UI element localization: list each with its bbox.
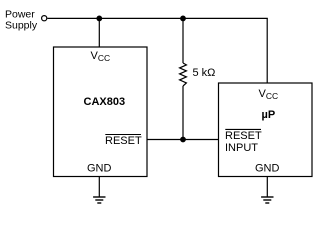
wire: uP ground stub	[266, 177, 268, 198]
wire: RESET net	[147, 139, 219, 141]
svg-text:VCC: VCC	[91, 50, 111, 63]
pin label RESET (CAX803) overline	[105, 134, 141, 136]
svg-text:RESET: RESET	[225, 130, 262, 142]
ground symbol (uP)	[261, 197, 273, 203]
wire: CAX803 ground stub	[98, 177, 100, 198]
wire: rail to CAX803 Vcc	[98, 18, 100, 47]
power supply terminal circle	[42, 16, 47, 21]
ground symbol (CAX803)	[93, 197, 105, 203]
svg-text:VCC: VCC	[259, 88, 279, 101]
svg-text:INPUT: INPUT	[225, 142, 258, 154]
wire: resistor to RESET net	[182, 86, 184, 140]
svg-text:5 kΩ: 5 kΩ	[193, 67, 216, 79]
junction: CAX803 Vcc node	[96, 16, 102, 22]
wire: rail to resistor	[182, 18, 184, 63]
svg-text:Supply: Supply	[5, 19, 38, 31]
junction: resistor top node	[180, 16, 186, 22]
svg-text:µP: µP	[262, 109, 276, 121]
resistor R 5 kOhm	[180, 63, 187, 86]
svg-text:RESET: RESET	[105, 135, 142, 147]
pin label RESET (uP) overline	[225, 128, 261, 130]
junction: RESET node	[180, 137, 186, 143]
svg-text:GND: GND	[87, 162, 112, 174]
IC U1 CAX803 box	[54, 47, 148, 177]
svg-text:GND: GND	[255, 162, 280, 174]
wire: power rail	[47, 17, 267, 19]
wire: rail to uP Vcc	[266, 18, 268, 83]
svg-text:CAX803: CAX803	[84, 96, 126, 108]
IC U2 microprocessor box	[219, 83, 313, 177]
